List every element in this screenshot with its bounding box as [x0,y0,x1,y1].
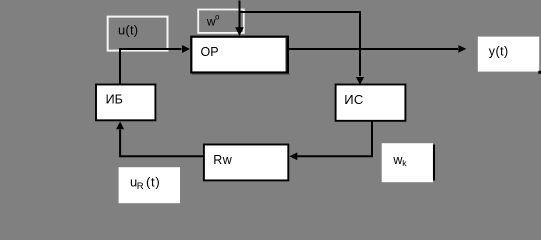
svg-text:R: R [137,181,144,192]
block Rw [204,145,288,181]
svg-text:o: o [215,13,220,22]
svg-text:u(t): u(t) [118,23,138,38]
wire Rw to IB [116,122,203,157]
svg-text:ИБ: ИБ [106,93,123,107]
block IB [96,85,155,121]
wire w0 to IS [240,12,365,85]
wire w0 into OP [235,1,244,37]
svg-text:y(t): y(t) [489,44,509,58]
svg-text:ОР: ОР [201,45,219,59]
block OP [191,37,290,74]
wire IS to Rw [289,121,372,160]
svg-text:k: k [402,158,407,168]
label y(t) [478,37,541,74]
label wk [382,143,434,182]
wire OP to y(t) [288,45,466,53]
label box u(t) [108,17,168,51]
svg-text:(t): (t) [146,175,160,190]
svg-text:ИС: ИС [344,92,364,107]
svg-text:Rw: Rw [213,153,233,167]
block IS [336,85,406,121]
wire IB to OP carrying u(t) [120,45,190,85]
label box w0 [198,10,244,33]
label uR(t) [119,167,180,203]
